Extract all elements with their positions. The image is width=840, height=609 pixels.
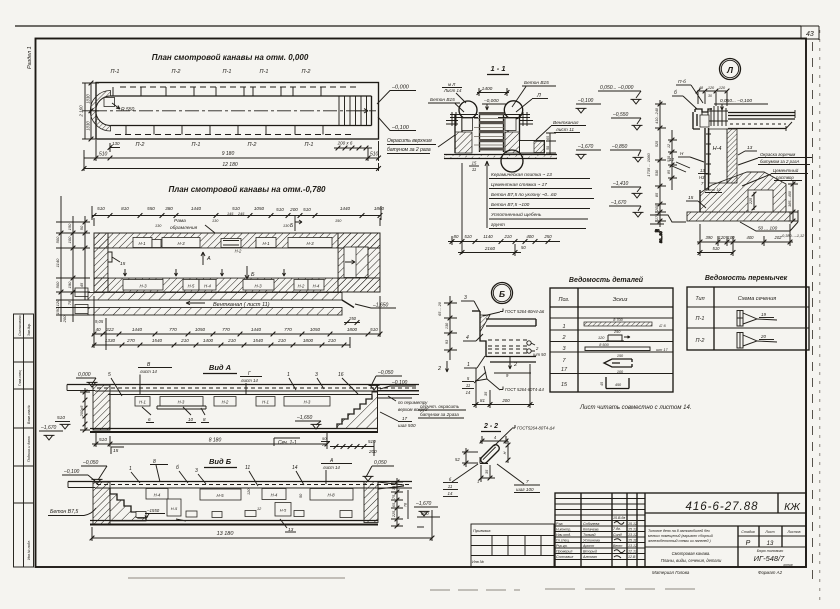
svg-text:2 160: 2 160 bbox=[79, 105, 84, 118]
svg-text:770: 770 bbox=[284, 327, 292, 332]
svg-text:13: 13 bbox=[767, 541, 774, 547]
svg-text:П-б: П-б bbox=[678, 79, 686, 85]
svg-text:4: 4 bbox=[466, 335, 469, 341]
level 0.000 top left bbox=[76, 372, 98, 387]
svg-text:Сеч. 1-1: Сеч. 1-1 bbox=[278, 440, 297, 446]
dashed plate outlines bottom row bbox=[115, 126, 355, 135]
svg-text:1440: 1440 bbox=[191, 206, 202, 211]
svg-text:1030: 1030 bbox=[86, 94, 91, 104]
level -1.410 bbox=[611, 181, 643, 198]
svg-text:15: 15 bbox=[113, 448, 119, 454]
svg-text:400: 400 bbox=[747, 235, 755, 240]
svg-text:10: 10 bbox=[188, 417, 194, 422]
svg-text:1030: 1030 bbox=[86, 121, 91, 131]
svg-text:Р: Р bbox=[746, 540, 751, 547]
note cement rastvor bbox=[742, 168, 808, 186]
svg-text:Ведомость перемычек: Ведомость перемычек bbox=[705, 274, 788, 282]
svg-text:Рама: Рама bbox=[174, 218, 186, 224]
svg-text:Вентканал ( лист 11): Вентканал ( лист 11) bbox=[213, 302, 270, 308]
svg-text:П-2: П-2 bbox=[248, 142, 257, 148]
callout 17 shag 500 bbox=[380, 412, 416, 428]
fraction 13 N3 bbox=[698, 168, 722, 193]
leader -1650 at vent end bbox=[355, 303, 396, 309]
svg-text:205: 205 bbox=[655, 204, 659, 212]
svg-text:Зам.дир.: Зам.дир. bbox=[27, 323, 31, 336]
stamp role names bbox=[556, 516, 637, 559]
svg-text:Цементный: Цементный bbox=[773, 168, 799, 173]
svg-text:130: 130 bbox=[155, 224, 162, 228]
left dim chains of middle plan bbox=[55, 196, 90, 323]
callout 1 bbox=[464, 356, 485, 368]
svg-text:Арост: Арост bbox=[582, 544, 594, 548]
svg-text:8 700: 8 700 bbox=[613, 318, 623, 322]
svg-text:145: 145 bbox=[227, 212, 234, 216]
svg-text:50: 50 bbox=[79, 225, 84, 230]
view A top slab lines bbox=[67, 385, 419, 395]
callout A list 14 view B bbox=[321, 458, 352, 484]
svg-text:120: 120 bbox=[719, 86, 726, 90]
svg-text:1: 1 bbox=[129, 466, 132, 472]
svg-text:шаг 500: шаг 500 bbox=[398, 423, 416, 428]
svg-text:–0,100: –0,100 bbox=[63, 469, 80, 475]
svg-text:13: 13 bbox=[700, 168, 705, 173]
angle piece 2-2 bbox=[479, 443, 500, 464]
svg-text:Н-3: Н-3 bbox=[254, 284, 262, 289]
svg-text:Н-2: Н-2 bbox=[298, 284, 305, 289]
svg-text:130: 130 bbox=[445, 322, 449, 329]
view A right hatched block bbox=[337, 392, 378, 429]
svg-text:1540: 1540 bbox=[152, 338, 163, 343]
svg-text:400: 400 bbox=[526, 234, 534, 239]
left dim chain detail B bbox=[438, 296, 457, 360]
svg-text:15.12: 15.12 bbox=[628, 522, 637, 526]
svg-text:12 180: 12 180 bbox=[222, 162, 238, 168]
svg-text:65: 65 bbox=[546, 136, 550, 140]
circle B bbox=[492, 283, 513, 304]
section arrow B down bbox=[245, 266, 255, 279]
svg-text:Н-1: Н-1 bbox=[138, 241, 146, 246]
svg-text:–1,670: –1,670 bbox=[40, 425, 57, 431]
middle plan bottom band hatched bbox=[94, 278, 380, 292]
svg-text:200: 200 bbox=[62, 315, 67, 323]
small left table bbox=[471, 524, 554, 567]
svg-text:П-2: П-2 bbox=[172, 69, 181, 75]
svg-text:15.11: 15.11 bbox=[628, 539, 637, 543]
P-2 sketch bbox=[737, 333, 777, 349]
svg-text:⊏ 6: ⊏ 6 bbox=[659, 323, 666, 328]
weld label GOST bottom bbox=[475, 366, 544, 392]
svg-text:14: 14 bbox=[466, 390, 471, 395]
svg-text:–0,550: –0,550 bbox=[612, 112, 629, 118]
niche rect at rounded end bbox=[104, 98, 115, 107]
level -0.000 in section bbox=[482, 98, 506, 110]
svg-text:120: 120 bbox=[55, 299, 60, 306]
svg-text:510: 510 bbox=[99, 152, 108, 158]
svg-text:П-2: П-2 bbox=[136, 142, 145, 148]
svg-text:1440: 1440 bbox=[132, 327, 143, 332]
svg-text:–1,410: –1,410 bbox=[612, 181, 629, 187]
callouts top view B bbox=[129, 459, 304, 486]
svg-text:Алтман: Алтман bbox=[582, 555, 597, 559]
svg-text:Листов: Листов bbox=[786, 530, 800, 534]
svg-text:50 ... 100: 50 ... 100 bbox=[758, 226, 778, 231]
svg-text:Вид А: Вид А bbox=[209, 363, 231, 372]
svg-text:шт 50: шт 50 bbox=[533, 352, 546, 357]
svg-text:45: 45 bbox=[79, 282, 84, 287]
svg-text:20: 20 bbox=[760, 334, 766, 339]
levels top left of view B bbox=[62, 460, 107, 484]
small dims rotated left view B bbox=[247, 488, 303, 511]
vent duct dims bbox=[546, 133, 556, 155]
svg-text:Привязка: Привязка bbox=[473, 528, 491, 533]
level -0.550 bbox=[611, 112, 643, 130]
svg-text:R 550: R 550 bbox=[121, 107, 135, 113]
svg-text:0,050... –0,100: 0,050... –0,100 bbox=[720, 98, 752, 104]
svg-text:250: 250 bbox=[613, 330, 621, 334]
svg-text:12: 12 bbox=[667, 144, 671, 148]
svg-text:7.дв.: 7.дв. bbox=[613, 527, 621, 531]
svg-text:15: 15 bbox=[688, 195, 694, 201]
svg-text:12.В: 12.В bbox=[628, 555, 636, 559]
section bottom slab bbox=[444, 155, 557, 159]
svg-text:–1,670: –1,670 bbox=[577, 144, 594, 150]
small down arrows in pit bbox=[124, 269, 286, 276]
svg-text:Стадия: Стадия bbox=[741, 530, 755, 534]
svg-text:–1,670: –1,670 bbox=[415, 501, 432, 507]
svg-text:Раздел 1: Раздел 1 bbox=[27, 46, 33, 69]
svg-text:Н-2: Н-2 bbox=[235, 249, 242, 254]
svg-text:15: 15 bbox=[120, 261, 126, 267]
leader to -0.100 bbox=[378, 117, 416, 131]
svg-text:50: 50 bbox=[322, 436, 327, 441]
svg-text:15.В.дв: 15.В.дв bbox=[613, 516, 625, 520]
callout 2 arrow left bbox=[437, 361, 449, 372]
svg-text:0,050: 0,050 bbox=[374, 460, 387, 466]
svg-text:Инв.№: Инв.№ bbox=[472, 560, 484, 564]
inner pit of middle plan bbox=[108, 248, 338, 278]
svg-text:Эскиз: Эскиз bbox=[613, 297, 628, 303]
table detaley texts bbox=[558, 297, 627, 388]
svg-text:130: 130 bbox=[112, 141, 120, 146]
svg-text:120: 120 bbox=[719, 235, 727, 240]
floor layers leader arrow bbox=[485, 161, 489, 228]
paint note left of detail B bbox=[418, 404, 466, 418]
svg-text:грунт: грунт bbox=[491, 223, 505, 228]
svg-text:40: 40 bbox=[95, 327, 101, 332]
small dim 130 below plan bbox=[108, 141, 120, 152]
svg-text:13.12: 13.12 bbox=[628, 533, 637, 537]
svg-text:200 x 6: 200 x 6 bbox=[337, 141, 353, 146]
svg-text:батуном за 2раза: батуном за 2раза bbox=[420, 412, 459, 417]
section mark B top bbox=[290, 216, 302, 231]
callout 13 bottom view B bbox=[280, 519, 296, 533]
svg-text:210: 210 bbox=[503, 234, 512, 239]
svg-text:500: 500 bbox=[55, 281, 60, 288]
top dimension row of middle plan bbox=[92, 206, 385, 226]
svg-text:1440: 1440 bbox=[251, 327, 262, 332]
svg-text:2: 2 bbox=[437, 366, 441, 372]
svg-text:17: 17 bbox=[402, 416, 408, 421]
section arrow A up bbox=[201, 252, 211, 265]
right page edge scan marks bbox=[812, 42, 814, 585]
rama obramleniya label bbox=[170, 218, 215, 233]
embedded plates in view A bbox=[135, 397, 330, 423]
svg-text:Гл.спец.: Гл.спец. bbox=[556, 539, 570, 543]
svg-text:1440: 1440 bbox=[340, 206, 351, 211]
svg-text:ГОСТ5264-80Т4-Δ4: ГОСТ5264-80Т4-Δ4 bbox=[517, 426, 555, 431]
svg-text:Формат А2: Формат А2 bbox=[758, 570, 783, 575]
dim row 12180 bbox=[82, 150, 381, 171]
left stamp column bbox=[14, 314, 34, 567]
svg-text:1400: 1400 bbox=[203, 338, 214, 343]
svg-text:Н3: Н3 bbox=[699, 175, 705, 180]
svg-text:Н-2: Н-2 bbox=[222, 400, 229, 405]
svg-text:416-6-27.88: 416-6-27.88 bbox=[685, 501, 758, 513]
left step lines bottom detail L bbox=[650, 215, 686, 243]
svg-text:Н-1: Н-1 bbox=[262, 241, 270, 246]
svg-text:12.12: 12.12 bbox=[628, 550, 637, 554]
centerline of pit bbox=[93, 110, 376, 112]
embedded plates bottom band bbox=[123, 280, 324, 291]
svg-text:1050: 1050 bbox=[254, 206, 265, 211]
svg-text:Соболева: Соболева bbox=[583, 522, 599, 526]
svg-text:13.12: 13.12 bbox=[628, 544, 637, 548]
svg-text:530: 530 bbox=[667, 156, 671, 162]
svg-text:Н-4: Н-4 bbox=[313, 284, 320, 289]
hatched annulus of rounded end bbox=[90, 91, 110, 132]
view B stair steps bbox=[110, 488, 146, 521]
note po perimetru bbox=[388, 396, 428, 412]
dim 510 left bbox=[55, 415, 71, 429]
50 20 stacked bbox=[321, 436, 330, 447]
svg-text:Н-3: Н-3 bbox=[178, 400, 185, 405]
svg-text:Н-8: Н-8 bbox=[327, 493, 335, 498]
svg-text:Н-3: Н-3 bbox=[177, 241, 185, 246]
svg-text:80: 80 bbox=[454, 234, 459, 239]
svg-text:м Л: м Л bbox=[448, 82, 456, 87]
svg-text:13: 13 bbox=[747, 145, 753, 151]
white inset in right block bbox=[344, 247, 368, 278]
svg-text:Бетон В15: Бетон В15 bbox=[524, 80, 549, 86]
svg-text:1: 1 bbox=[562, 324, 565, 330]
svg-text:510: 510 bbox=[370, 327, 378, 332]
svg-text:390: 390 bbox=[706, 235, 714, 240]
svg-text:525: 525 bbox=[655, 140, 659, 147]
svg-text:огрунт. окрасить: огрунт. окрасить bbox=[420, 404, 460, 409]
left wall block hatched bbox=[94, 233, 108, 292]
dim row 9180 bbox=[84, 140, 381, 161]
svg-text:П-2: П-2 bbox=[696, 338, 705, 344]
svg-text:202: 202 bbox=[774, 235, 783, 240]
svg-text:Вент: Вент bbox=[613, 544, 622, 548]
notes below frame bbox=[652, 570, 783, 575]
main stamp grid bbox=[555, 493, 806, 567]
leader to -0.000 bbox=[377, 85, 416, 105]
svg-text:8: 8 bbox=[203, 417, 206, 422]
detail circle right bbox=[504, 101, 522, 119]
svg-text:Бюро типового: Бюро типового bbox=[757, 549, 784, 553]
level -1670 right view B bbox=[414, 501, 438, 516]
level -0.100 col1 bbox=[576, 98, 602, 113]
callout b bbox=[672, 90, 697, 109]
svg-text:380: 380 bbox=[165, 206, 173, 211]
stair treads in plan bbox=[339, 96, 367, 126]
svg-text:50: 50 bbox=[546, 146, 550, 150]
svg-text:лист 14: лист 14 bbox=[139, 369, 157, 374]
dim 1400 bbox=[477, 86, 510, 96]
svg-text:Составил: Составил bbox=[556, 555, 573, 559]
level 0.050 right view B bbox=[363, 460, 395, 481]
svg-text:1050: 1050 bbox=[310, 327, 321, 332]
detail circle left bbox=[459, 101, 477, 119]
svg-text:510: 510 bbox=[99, 437, 107, 443]
svg-text:9 180: 9 180 bbox=[222, 151, 235, 157]
callout N 12 bbox=[669, 151, 704, 172]
svg-text:Керамическая плитка ~ 13: Керамическая плитка ~ 13 bbox=[491, 172, 552, 178]
title View B bbox=[204, 457, 237, 468]
svg-text:550: 550 bbox=[147, 206, 155, 211]
view A left hatched wall corner bbox=[93, 385, 110, 430]
plate labels row above top plan bbox=[111, 69, 311, 75]
P-1 sketch bbox=[737, 311, 777, 327]
svg-text:П-1: П-1 bbox=[111, 69, 120, 75]
svg-text:120: 120 bbox=[247, 488, 251, 495]
svg-text:Тип: Тип bbox=[695, 296, 704, 302]
svg-text:обрамления: обрамления bbox=[170, 225, 198, 231]
svg-text:Лист 14: Лист 14 bbox=[443, 88, 462, 93]
svg-text:1735 ... 1080: 1735 ... 1080 bbox=[646, 153, 651, 177]
svg-text:Цементная стяжка ~: Цементная стяжка ~ 17 bbox=[491, 182, 547, 188]
svg-text:150: 150 bbox=[67, 223, 72, 230]
svg-text:Подпись и дата: Подпись и дата bbox=[27, 436, 31, 462]
svg-text:Схема сечения: Схема сечения bbox=[738, 296, 777, 302]
callout 15 detail L bbox=[686, 195, 706, 208]
foundation bottom slab bbox=[687, 212, 790, 221]
view B right ledge bbox=[378, 482, 404, 520]
svg-text:Л: Л bbox=[726, 65, 733, 75]
IG-548/7 cell bbox=[754, 549, 793, 567]
svg-text:810: 810 bbox=[121, 206, 129, 211]
title View A bbox=[203, 363, 237, 374]
svg-text:2: 2 bbox=[561, 335, 565, 341]
bolt dims 48 120 120 bbox=[696, 86, 730, 106]
svg-text:Типовое депо на 8 автомобиле: Типовое депо на 8 автомобилей без bbox=[648, 529, 710, 533]
svg-text:КЖ: КЖ bbox=[784, 501, 801, 513]
svg-text:1800: 1800 bbox=[303, 338, 314, 343]
callout 2 sht 50 right bbox=[531, 343, 546, 357]
right vertical dims view B bbox=[391, 478, 408, 528]
svg-text:150: 150 bbox=[55, 307, 60, 314]
svg-text:–0,000: –0,000 bbox=[483, 98, 499, 104]
svg-text:3: 3 bbox=[315, 372, 318, 378]
svg-text:3: 3 bbox=[195, 468, 198, 474]
vent channel lower strip bbox=[88, 300, 354, 315]
svg-text:–0,850: –0,850 bbox=[611, 144, 628, 150]
svg-text:–0,050: –0,050 bbox=[82, 460, 99, 466]
svg-text:130: 130 bbox=[212, 219, 219, 223]
svg-text:Смотровая канава.: Смотровая канава. bbox=[672, 551, 711, 556]
svg-text:Копачева: Копачева bbox=[583, 528, 599, 532]
svg-text:17: 17 bbox=[561, 367, 568, 373]
svg-text:200x5: 200x5 bbox=[79, 405, 84, 418]
svg-text:250: 250 bbox=[543, 234, 552, 239]
vent label and arrow bbox=[186, 301, 270, 308]
dim 225 in niche bbox=[749, 192, 756, 211]
callout m L list 14 bbox=[442, 82, 466, 103]
svg-text:Планы, виды, сечения, детали: Планы, виды, сечения, детали bbox=[661, 558, 722, 563]
svg-text:Бетон В7,5: Бетон В7,5 ~100 bbox=[491, 202, 530, 208]
callout 13 detail L bbox=[738, 145, 757, 155]
svg-text:Н-5: Н-5 bbox=[280, 508, 287, 513]
bottom dims detail L bbox=[697, 224, 793, 256]
svg-text:50: 50 bbox=[521, 245, 526, 250]
stair direction arrow bbox=[356, 109, 368, 113]
bottom scan marks bbox=[128, 577, 345, 579]
weld label GOST 2-2 bbox=[494, 425, 555, 446]
svg-text:1: 1 bbox=[287, 372, 290, 378]
svg-text:11: 11 bbox=[448, 484, 453, 489]
svg-text:770: 770 bbox=[169, 327, 177, 332]
svg-text:450: 450 bbox=[615, 383, 622, 387]
svg-text:80...90: 80...90 bbox=[659, 231, 663, 243]
svg-text:Согласовано: Согласовано bbox=[18, 315, 22, 336]
levels right of view A bbox=[369, 370, 417, 390]
fraction 5 11 14 bbox=[462, 372, 486, 395]
svg-text:2160: 2160 bbox=[484, 246, 496, 251]
svg-text:210: 210 bbox=[277, 338, 286, 343]
svg-text:6: 6 bbox=[148, 417, 151, 422]
svg-text:225: 225 bbox=[749, 197, 753, 205]
svg-text:510: 510 bbox=[370, 152, 379, 158]
svg-text:Н-3: Н-3 bbox=[304, 400, 311, 405]
svg-text:А: А bbox=[206, 256, 211, 262]
svg-text:шт 17: шт 17 bbox=[656, 348, 668, 352]
circle L bbox=[720, 59, 741, 80]
svg-text:510: 510 bbox=[464, 234, 472, 239]
svg-text:150: 150 bbox=[335, 219, 342, 223]
svg-text:1050: 1050 bbox=[195, 327, 206, 332]
svg-text:510: 510 bbox=[713, 246, 721, 251]
callout 5 bbox=[108, 372, 122, 396]
callout G list 14 bbox=[240, 371, 262, 394]
view B bottom slab bbox=[90, 521, 378, 525]
small anchor marks view B bbox=[136, 511, 352, 522]
svg-text:Инв.№ подл.: Инв.№ подл. bbox=[27, 540, 31, 560]
row1 sketch hatched bar bbox=[584, 318, 666, 328]
svg-text:Н-1: Н-1 bbox=[262, 400, 269, 405]
svg-text:1140: 1140 bbox=[55, 258, 60, 267]
wall body detail L bbox=[705, 128, 737, 190]
view A bottom dims bbox=[92, 432, 329, 454]
svg-text:Окрасить верхним: Окрасить верхним bbox=[387, 138, 432, 144]
zigzag dim 200 right bbox=[330, 439, 377, 456]
svg-text:Н-3: Н-3 bbox=[139, 284, 147, 289]
svg-text:1400: 1400 bbox=[482, 86, 493, 92]
svg-text:б: б bbox=[176, 465, 179, 471]
svg-text:мелких помещений (вариант сб: мелких помещений (вариант сборный bbox=[648, 534, 713, 538]
svg-text:100: 100 bbox=[67, 236, 72, 243]
svg-text:План смотровой канавы на о: План смотровой канавы на отм.-0,780 bbox=[169, 185, 327, 194]
level -1650 in view A bbox=[295, 415, 322, 429]
vent channel end caps left bbox=[75, 288, 88, 297]
level 0.050 -0.100 detail L bbox=[714, 98, 768, 110]
svg-text:1140: 1140 bbox=[483, 234, 493, 239]
svg-text:П-2: П-2 bbox=[302, 69, 311, 75]
svg-text:План смотровой канавы на о: План смотровой канавы на отм. 0,000 bbox=[152, 53, 309, 62]
svg-text:7: 7 bbox=[526, 479, 529, 484]
svg-text:0,000: 0,000 bbox=[78, 372, 91, 378]
embedded plates top band bbox=[133, 238, 332, 254]
